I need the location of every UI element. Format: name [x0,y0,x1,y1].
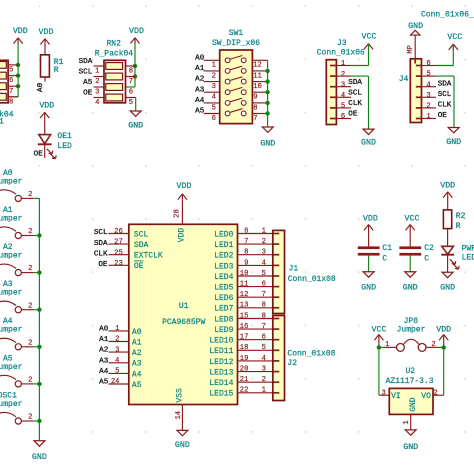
svg-text:LED13: LED13 [209,369,233,378]
svg-text:4: 4 [212,94,216,102]
svg-text:LED15: LED15 [209,390,233,399]
svg-text:12: 12 [240,291,249,299]
jumper A0 [0,169,39,202]
PWR reference (clipped) [462,245,474,254]
svg-text:4: 4 [262,259,266,267]
RN2 reference [106,39,121,48]
jumper A4 [0,317,39,350]
svg-text:4: 4 [95,99,99,107]
net label SDA (J3) [348,79,362,87]
svg-text:A4: A4 [99,368,109,376]
svg-text:VCC: VCC [372,326,387,335]
svg-text:1: 1 [212,62,216,70]
net label SDA (U1) [94,240,108,248]
power VDD (OE1) [39,102,54,135]
power VDD (R1) [39,28,54,55]
svg-text:3: 3 [212,83,216,91]
svg-text:Conn_01x08: Conn_01x08 [287,350,335,359]
svg-text:JP8: JP8 [404,317,419,326]
U1 pin 11 LED5 / wire to J pin 6 [214,281,273,293]
svg-text:OE: OE [348,111,358,119]
svg-text:A5: A5 [99,379,109,387]
svg-text:10: 10 [240,270,249,278]
svg-text:GND: GND [361,138,376,147]
U1 pin 17 LED10 / wire to J pin 6 [209,334,272,346]
ground (PWR LED) [440,272,455,292]
svg-text:10: 10 [253,83,262,91]
svg-text:8: 8 [253,104,257,112]
J4 value Conn_01x06_MountingPin (clipped) [421,11,474,20]
svg-text:VDD: VDD [39,102,54,111]
wire J3 pin 1 to VCC [351,44,369,66]
ground (RN2) [128,111,143,131]
net label A5 (RN2) [83,79,93,87]
U1 pin 27 SDA [109,239,149,250]
svg-text:SW1: SW1 [229,29,244,38]
svg-text:3: 3 [262,366,266,374]
svg-text:1: 1 [262,227,266,235]
svg-text:21: 21 [240,376,249,384]
wire J3 pin 2 to GND [351,76,369,129]
U1 pin 12 LED6 / wire to J pin 7 [214,291,273,303]
svg-text:3: 3 [115,346,119,354]
svg-text:1: 1 [426,113,430,121]
wire VCC to U2 VI [379,347,389,395]
svg-text:2: 2 [262,238,266,246]
svg-text:2: 2 [28,265,32,273]
net label A0 (SW1) [195,54,205,62]
svg-text:RN2: RN2 [106,39,121,48]
net label CLK (J3) [348,100,362,108]
svg-text:20: 20 [240,366,249,374]
ground (U2) [403,430,418,452]
svg-text:4: 4 [426,81,430,89]
svg-text:8: 8 [9,98,13,106]
ground (J3) [361,129,376,147]
svg-text:C1: C1 [382,244,392,253]
svg-text:2: 2 [341,71,345,79]
svg-text:2: 2 [95,78,99,86]
C2 value C [424,254,429,263]
net label A2 (SW1) [195,76,205,84]
junction at jumper A3 [37,308,41,312]
svg-text:LED4: LED4 [214,273,233,282]
net label A3 (SW1) [195,86,205,94]
ground (SW1) [260,127,275,149]
svg-text:OE: OE [134,262,144,271]
svg-text:VSS: VSS [176,388,185,403]
svg-text:LED: LED [57,142,72,151]
U2 pin 2 VO [421,390,438,402]
J3 pins [336,60,351,121]
svg-text:SCL: SCL [348,89,362,97]
svg-text:5: 5 [262,344,266,352]
svg-text:SCL: SCL [79,69,93,77]
svg-text:5: 5 [341,103,345,111]
svg-text:22: 22 [240,387,249,395]
net label A1 (SW1) [195,65,205,73]
svg-text:12: 12 [253,62,262,70]
svg-text:6: 6 [9,77,13,85]
junction at RN1 pin 7 [16,84,20,88]
svg-text:Jumper: Jumper [0,400,23,409]
svg-text:A0: A0 [37,82,45,92]
svg-text:26: 26 [114,228,123,236]
svg-text:6: 6 [212,115,216,123]
junction at JP8 pin 1 [377,345,381,349]
U2 reference [405,367,415,376]
svg-text:18: 18 [240,344,249,352]
junction at jumper A5 [37,382,41,386]
junction at SW1 pin 8 [265,101,269,105]
power VDD (JP8) [436,326,451,348]
U1 pin 19 LED12 / wire to J pin 4 [209,355,272,367]
svg-text:Conn_01x08: Conn_01x08 [288,275,336,284]
svg-text:17: 17 [240,334,249,342]
svg-text:A0: A0 [132,328,142,337]
svg-text:5: 5 [212,104,216,112]
resistor pack RN1 [0,60,8,103]
svg-text:6: 6 [341,113,345,121]
ground (C1) [361,272,376,293]
svg-text:PCA9685PW: PCA9685PW [162,318,205,327]
U1 pin 13 LED7 / wire to J pin 8 [214,302,273,314]
LED OE1 [38,135,56,159]
svg-text:A5: A5 [195,108,205,116]
net label SCL (J4) [438,91,452,99]
svg-text:VDD: VDD [178,228,187,243]
svg-text:LED12: LED12 [209,358,233,367]
OE1 value LED [57,142,72,151]
RN1 pins 5-8 [8,65,18,107]
jumper A5 [0,354,39,387]
svg-text:VCC: VCC [405,214,420,223]
svg-text:VI: VI [391,392,401,401]
junction at jumper A4 [37,345,41,349]
svg-text:GND: GND [175,441,190,450]
U2 pin 1 GND [403,397,418,430]
resistor R2 [443,210,451,229]
svg-text:GND: GND [128,122,143,131]
regulator U2 body [389,388,433,414]
net label A5 (SW1) [195,108,205,116]
svg-text:6: 6 [262,334,266,342]
svg-text:SDA: SDA [94,240,108,248]
wire J4 pin 6 to VCC [436,44,453,65]
junction at SW1 pin 7 [265,111,269,115]
net label A3 (U1) [99,357,109,365]
svg-text:LED11: LED11 [209,347,233,356]
svg-text:VCC: VCC [362,33,377,42]
svg-text:GND: GND [409,397,418,412]
svg-text:LED10: LED10 [209,337,233,346]
junction at RN2 pin 8 [133,64,137,68]
junction at jumper OSC1 [37,419,41,423]
svg-text:23: 23 [114,260,123,268]
svg-text:U2: U2 [405,367,415,376]
jumper OSC1 [0,391,39,424]
junction at JP8 pin 2 [442,345,446,349]
SW1 reference [229,29,244,38]
ground (J4) [446,128,461,148]
power VCC (J3) [362,33,377,50]
svg-text:A2: A2 [195,76,205,84]
svg-text:16: 16 [240,323,249,331]
svg-text:19: 19 [240,355,249,363]
svg-text:CLK: CLK [438,102,452,110]
svg-text:LED8: LED8 [214,315,233,324]
svg-text:LED: LED [462,253,474,262]
power VDD (RN2) [129,27,144,44]
svg-text:GND: GND [260,140,275,149]
svg-text:AZ1117-3.3: AZ1117-3.3 [386,377,434,386]
power VCC (C2) [405,214,420,246]
svg-text:VDD: VDD [177,182,192,191]
U2 value AZ1117-3.3 [386,377,434,386]
power VDD (C1) [363,214,378,246]
svg-text:27: 27 [114,239,123,247]
SW1 pins [204,60,268,123]
net label OE (OE1) [34,150,44,158]
svg-text:LED3: LED3 [214,262,233,271]
ground (J4 MP) [408,22,423,35]
svg-text:9: 9 [253,94,257,102]
svg-text:A3: A3 [132,360,142,369]
svg-text:LED14: LED14 [209,379,233,388]
net label A2 (U1) [99,347,109,355]
net label SDA (J4) [438,80,452,88]
RN2 value R_Pack04 [95,49,134,58]
svg-text:R: R [456,222,461,231]
svg-text:25: 25 [114,249,123,257]
net label A0 (U1) [99,326,109,334]
svg-text:5: 5 [129,99,133,107]
svg-text:GND: GND [446,138,461,147]
J3 reference [337,39,347,48]
switch SW1 SW_DIP_x06 [220,50,253,124]
svg-text:7: 7 [262,323,266,331]
svg-text:2: 2 [115,336,119,344]
power VDD (U1) [177,182,192,224]
svg-text:J2: J2 [287,359,297,368]
svg-text:OE1: OE1 [57,132,72,141]
svg-text:13: 13 [240,302,249,310]
svg-text:11: 11 [240,281,249,289]
U1 pin 1 A0 [109,325,142,337]
power VCC (J4) [447,33,462,50]
jumper JP8 [379,339,444,351]
U1 pin 25 EXTCLK [109,249,163,260]
svg-text:Jumper: Jumper [0,326,23,335]
J3 value Conn_01x06 [317,48,365,57]
svg-text:3: 3 [426,92,430,100]
svg-text:C: C [382,254,387,263]
svg-text:SCL: SCL [438,91,452,99]
U1 pin 8 LED2 / wire to J pin 3 [214,249,273,261]
svg-text:7: 7 [253,115,257,123]
svg-text:5: 5 [9,67,13,75]
svg-text:A3: A3 [195,86,205,94]
svg-text:GND: GND [403,443,418,452]
svg-text:1: 1 [262,387,266,395]
svg-text:7: 7 [244,238,248,246]
svg-text:CLK: CLK [94,250,108,258]
svg-text:2: 2 [212,72,216,80]
svg-text:GND: GND [32,453,47,462]
net label SCL (U1) [94,229,108,237]
net label A5 (U1) [99,379,109,387]
resistor R1 [41,55,50,77]
capacitor C2 [399,246,421,255]
LED PWR [441,246,459,272]
power VCC (JP8) [372,326,387,348]
U1 pin 4 A3 [109,357,142,369]
U1 pin 7 LED1 / wire to J pin 2 [214,238,273,250]
svg-text:Jumper: Jumper [0,177,23,186]
U1 pin 3 A2 [109,346,142,358]
JP8 value Jumper [397,326,426,335]
svg-text:VCC: VCC [447,33,462,42]
svg-text:7: 7 [129,78,133,86]
svg-text:J4: J4 [399,75,409,84]
J1 value Conn_01x08 [288,275,336,284]
net label CLK (J4) [438,102,452,110]
U1 pin 26 SCL [109,228,149,239]
RN1 reference RN1 (clipped) [0,117,4,126]
svg-text:A1: A1 [132,338,142,347]
svg-text:4: 4 [262,355,266,363]
U1 pin 20 LED13 / wire to J pin 3 [209,366,272,378]
svg-text:3: 3 [95,89,99,97]
wire C2 to GND [409,256,411,272]
svg-text:24: 24 [111,378,120,386]
svg-text:Jumper: Jumper [397,326,426,335]
svg-text:LED2: LED2 [214,252,233,261]
svg-text:Conn_01x06: Conn_01x06 [317,48,365,57]
R2 value R [456,222,461,231]
svg-text:C: C [424,254,429,263]
resistor pack RN2 [104,60,126,103]
svg-text:8: 8 [244,249,248,257]
svg-text:SCL: SCL [94,229,108,237]
svg-text:SW_DIP_x06: SW_DIP_x06 [212,39,260,48]
svg-text:SCL: SCL [134,230,149,239]
svg-text:2: 2 [28,191,32,199]
svg-text:Jumper: Jumper [0,214,23,223]
svg-text:7: 7 [262,291,266,299]
wire VDD to RN1 pins 5-8 [8,44,18,97]
svg-text:4: 4 [115,357,119,365]
J1 reference [289,265,299,274]
op-amp U1 body [129,224,238,404]
svg-text:6: 6 [262,281,266,289]
ground (C2) [403,272,418,293]
R2 reference [456,212,466,221]
net label SCL (J3) [348,89,362,97]
U1 reference [179,302,189,311]
svg-text:PWR: PWR [462,245,474,254]
svg-text:1: 1 [403,420,411,424]
wire U2 VO to VDD [433,347,444,395]
net label OE (RN2) [83,90,93,98]
svg-text:LED1: LED1 [214,241,233,250]
svg-text:9: 9 [244,259,248,267]
net label SCL (RN2) [79,69,93,77]
svg-text:2: 2 [28,339,32,347]
svg-text:1: 1 [115,325,119,333]
wire below R1 [44,77,46,82]
svg-text:VDD: VDD [129,27,144,36]
svg-text:R2: R2 [456,212,466,221]
net label SDA (RN2) [79,58,93,66]
U1 pin 21 LED14 / wire to J pin 2 [209,376,272,388]
svg-text:OE: OE [83,90,93,98]
junction at jumper A2 [37,270,41,274]
svg-text:8: 8 [129,68,133,76]
svg-text:3: 3 [341,81,345,89]
U1 pin 15 LED8 / wire to J pin 8 [214,312,273,324]
svg-text:6: 6 [426,60,430,68]
svg-text:A1: A1 [99,336,109,344]
wire R2 to LED [447,229,449,247]
svg-text:CLK: CLK [348,100,362,108]
svg-text:A5: A5 [83,79,93,87]
U1 pin 9 LED3 / wire to J pin 4 [214,259,273,271]
svg-text:GND: GND [361,283,376,292]
svg-text:A0: A0 [99,326,109,334]
net label OE (U1) [98,261,108,269]
svg-text:A0: A0 [195,54,205,62]
svg-text:SDA: SDA [438,80,452,88]
svg-text:6: 6 [129,89,133,97]
wire VDD to RN2 pins 8-6 [126,44,136,88]
net label CLK (U1) [94,250,108,258]
PWR value LED (clipped) [462,253,474,262]
svg-text:LED0: LED0 [214,230,233,239]
svg-text:OE: OE [98,261,108,269]
connector J2 [273,316,285,401]
wire J4 pin 5 to GND [436,76,454,127]
svg-text:C2: C2 [424,244,434,253]
net label OE (J4) [438,112,448,120]
svg-text:A4: A4 [195,97,205,105]
svg-text:2: 2 [262,376,266,384]
svg-text:2: 2 [28,414,32,422]
J4 reference [399,75,409,84]
J2 value Conn_01x08 [287,350,335,359]
net label A4 (SW1) [195,97,205,105]
C2 reference [424,244,434,253]
svg-text:MP: MP [407,45,415,54]
svg-text:Jumper: Jumper [0,363,23,372]
svg-text:1: 1 [95,68,99,76]
U1 pin 5 A4 [109,368,142,380]
svg-text:2: 2 [426,103,430,111]
U1 pin 22 LED15 / wire to J pin 1 [209,387,272,399]
ground (U1) [175,430,190,450]
svg-text:Jumper: Jumper [0,252,23,261]
svg-text:2: 2 [28,377,32,385]
ground (jumpers) [32,441,47,462]
svg-text:LED5: LED5 [214,284,233,293]
wire C1 to GND [368,256,370,272]
svg-text:OE: OE [34,150,44,158]
net label A1 (U1) [99,336,109,344]
svg-text:VDD: VDD [39,28,54,37]
SW1 value SW_DIP_x06 [212,39,260,48]
junction at RN1 pin 5 [16,63,20,67]
R1 value R [54,66,59,75]
